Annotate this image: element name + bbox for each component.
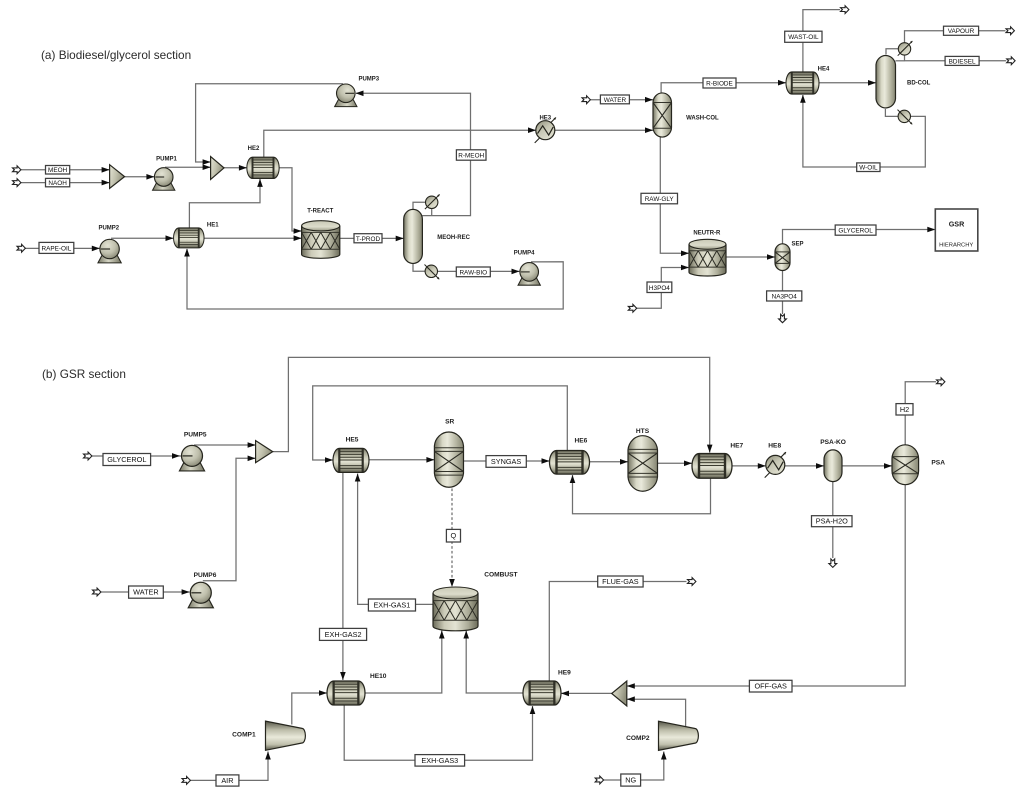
mixer M4 bbox=[612, 681, 627, 706]
svg-text:HE5: HE5 bbox=[346, 437, 359, 444]
wire arrow into NEUTR-R lower bbox=[681, 265, 689, 271]
svg-text:Q: Q bbox=[451, 531, 457, 540]
stream label EXH-GAS2 bbox=[320, 628, 367, 640]
svg-text:GSR: GSR bbox=[949, 219, 965, 228]
wire arrow into HE9 bottom bbox=[530, 706, 536, 714]
wire arrow into M1 upper bbox=[102, 167, 110, 173]
svg-text:PUMP4: PUMP4 bbox=[514, 250, 535, 256]
pump PUMP2 bbox=[98, 239, 121, 263]
wire arrow into PSA bbox=[884, 463, 892, 469]
wire EXH-GAS2 line bbox=[342, 472, 344, 680]
svg-text:COMP1: COMP1 bbox=[232, 732, 256, 739]
svg-text:W-OIL: W-OIL bbox=[859, 165, 878, 172]
wire HE6 top to HE5 left bbox=[313, 386, 568, 460]
wire arrow into BD-COL bbox=[868, 80, 876, 86]
wire PSA top H2 out bbox=[905, 382, 936, 445]
wire arrow into WASH-COL lower bbox=[645, 127, 653, 133]
compressor COMP1 bbox=[266, 721, 306, 750]
wire MEOH-REC condenser stub bbox=[413, 202, 425, 209]
stream label T-PROD bbox=[354, 234, 382, 243]
wire arrow into M3 lower bbox=[248, 456, 256, 462]
feed/product arrow WATER-b feed bbox=[93, 588, 101, 596]
svg-text:BD-COL: BD-COL bbox=[907, 80, 931, 86]
wire arrow into M4 lower bbox=[627, 696, 635, 702]
svg-text:HE10: HE10 bbox=[370, 673, 387, 680]
heat exchanger HE4 bbox=[786, 72, 819, 94]
wire R-MEOH recycle PUMP3 to M2 bbox=[196, 84, 343, 162]
wire WASH-COL bottom to NEUTR-R bbox=[660, 137, 689, 253]
wire arrow into PUMP3 bbox=[356, 91, 364, 97]
wire EXH-GAS3 line bbox=[344, 705, 532, 760]
wire PSA bottom OFF-GAS bbox=[627, 485, 905, 686]
feed/product arrow NG feed bbox=[595, 776, 603, 784]
wire arrow into PUMP2 bbox=[92, 246, 100, 252]
stream label WATER-a bbox=[600, 95, 629, 104]
wire BD-COL reboiler stub bbox=[885, 109, 898, 116]
svg-text:BDIESEL: BDIESEL bbox=[949, 58, 976, 65]
heat exchanger HE5 bbox=[333, 448, 369, 472]
wire M4 to HE9 bbox=[561, 692, 612, 694]
svg-text:WATER: WATER bbox=[604, 97, 627, 104]
svg-text:PSA-KO: PSA-KO bbox=[820, 439, 846, 446]
wire HE10 to COMBUST bbox=[365, 631, 442, 694]
stream label BDIESEL bbox=[945, 56, 979, 65]
reactor reformer SR bbox=[434, 432, 463, 487]
wire arrow into MEOH-REC bbox=[396, 236, 404, 242]
feed/product arrow WAST-OIL out bbox=[841, 6, 849, 14]
wire AIR feed line bbox=[190, 752, 268, 781]
wire arrow into PUMP6 bbox=[182, 589, 190, 595]
wire arrow into M1 lower bbox=[102, 180, 110, 186]
reboiler of BD-COL bbox=[898, 110, 913, 125]
stream label GLYCEROL-b bbox=[103, 454, 151, 466]
mixer M3 bbox=[256, 441, 273, 463]
stream label RAW-GLY bbox=[641, 193, 678, 204]
heat exchanger HE7 bbox=[692, 454, 732, 479]
svg-text:HE4: HE4 bbox=[818, 67, 830, 73]
wire MEOH-REC reboiler stub bbox=[413, 263, 425, 271]
heat exchanger HE2 bbox=[247, 157, 279, 178]
wire WASH-COL top to HE4 bbox=[661, 83, 786, 93]
svg-text:RAW-GLY: RAW-GLY bbox=[645, 196, 675, 203]
wire HE6 to HTS bbox=[590, 461, 629, 463]
svg-text:NAOH: NAOH bbox=[48, 180, 67, 187]
wire arrow into T-REACT lower bbox=[294, 235, 302, 241]
svg-text:EXH-GAS1: EXH-GAS1 bbox=[373, 601, 410, 610]
svg-text:RAPE-OIL: RAPE-OIL bbox=[41, 245, 71, 252]
wire arrow into HE5 left bbox=[325, 457, 333, 463]
wire arrow into PUMP4 bbox=[512, 269, 520, 275]
wire M3 to HE7 top bbox=[273, 357, 710, 452]
svg-text:EXH-GAS3: EXH-GAS3 bbox=[421, 756, 458, 765]
stream label W-OIL bbox=[857, 163, 880, 172]
svg-text:AIR: AIR bbox=[221, 776, 233, 785]
pump PUMP1 bbox=[153, 168, 175, 191]
svg-text:MEOH: MEOH bbox=[48, 167, 68, 174]
stream label R-MEOH bbox=[456, 150, 486, 160]
svg-text:VAPOUR: VAPOUR bbox=[948, 28, 975, 35]
svg-text:MEOH-REC: MEOH-REC bbox=[437, 235, 470, 241]
wire arrow into HE6 bottom bbox=[570, 475, 576, 483]
reactor COMBUST bbox=[433, 587, 478, 631]
wire arrow into T-REACT upper bbox=[294, 228, 302, 234]
wire W-OIL loop to HE4 bottom bbox=[803, 95, 925, 167]
wire arrow into COMP2 bottom bbox=[661, 752, 667, 760]
wire PUMP2 to HE1 bbox=[111, 237, 174, 239]
reactor NEUTR-R bbox=[689, 239, 726, 276]
svg-text:GLYCEROL: GLYCEROL bbox=[838, 228, 873, 235]
wire arrow into HE7 left bbox=[684, 461, 692, 467]
svg-text:T-PROD: T-PROD bbox=[356, 236, 381, 243]
wire MEOH feed line bbox=[21, 169, 110, 171]
wire SR to HE6 SYNGAS bbox=[464, 460, 550, 462]
wire arrow into COMBUST bottom left bbox=[439, 631, 445, 639]
stream label R-BIODE bbox=[703, 78, 736, 88]
stream label AIR bbox=[216, 775, 239, 786]
svg-text:HE1: HE1 bbox=[207, 222, 219, 228]
svg-text:SEP: SEP bbox=[791, 241, 803, 247]
svg-text:GLYCEROL: GLYCEROL bbox=[107, 455, 146, 464]
wire arrow into HE6 left bbox=[542, 458, 550, 464]
wire NG feed line bbox=[603, 752, 664, 781]
wire SR to COMBUST Q dashed bbox=[451, 489, 453, 579]
wire arrow into HE4 left bbox=[778, 80, 786, 86]
stream label GLYCEROL-a bbox=[835, 225, 876, 235]
wire arrow into SEP bbox=[767, 254, 775, 260]
svg-text:NEUTR-R: NEUTR-R bbox=[693, 231, 721, 237]
wire arrow into HE10 top bbox=[340, 672, 346, 680]
feed/product arrow VAPOUR out bbox=[1006, 27, 1014, 35]
wire arrow into HE8 bbox=[758, 463, 766, 469]
wire HE2 right to T-REACT upper bbox=[279, 168, 301, 231]
wire H3PO4 feed line bbox=[636, 268, 689, 309]
svg-text:PUMP1: PUMP1 bbox=[156, 157, 177, 163]
wire HE1 top to HE2 bottom bbox=[189, 178, 260, 228]
wire HE7 bottom to HE6 bottom bbox=[573, 475, 711, 514]
wire HE1 to T-REACT lower bbox=[204, 237, 302, 239]
wire PSA-KO to PSA bbox=[842, 465, 892, 467]
wire R-MEOH line bbox=[356, 93, 471, 215]
wire arrow into NEUTR-R upper bbox=[681, 251, 689, 257]
mixer M2 bbox=[211, 157, 224, 180]
stream label Q bbox=[446, 529, 460, 542]
heat exchanger HE1 bbox=[174, 228, 204, 248]
stream label VAPOUR bbox=[944, 26, 979, 35]
wire M2 to HE2 bbox=[224, 167, 247, 169]
mixer M1 bbox=[110, 165, 125, 189]
wire NAOH feed line bbox=[21, 182, 110, 184]
heat exchanger HE10 bbox=[327, 681, 365, 705]
wire arrow into HE2 bottom bbox=[257, 179, 263, 187]
feed/product arrow FLUE-GAS out bbox=[688, 578, 696, 586]
feed/product arrow MEOH feed bbox=[13, 166, 21, 174]
stream label RAPE-OIL bbox=[39, 242, 74, 253]
wire HE2 top to HE3 to WASH-COL bbox=[264, 130, 653, 157]
stream label H3PO4 bbox=[647, 282, 672, 293]
reactor reactor HTS bbox=[628, 436, 658, 492]
stream label MEOH bbox=[46, 166, 70, 175]
wire WATER-a feed line bbox=[590, 99, 653, 101]
vessel separator SEP bbox=[775, 244, 790, 271]
wire arrow into HE1 left bbox=[166, 235, 174, 241]
stream label SYNGAS bbox=[486, 456, 526, 468]
wire arrow into HE1 bottom bbox=[184, 249, 190, 257]
svg-text:SYNGAS: SYNGAS bbox=[491, 457, 522, 466]
wire arrow into M2 upper bbox=[203, 159, 211, 165]
stream label FLUE-GAS bbox=[598, 576, 643, 587]
svg-text:NG: NG bbox=[625, 776, 636, 785]
feed/product arrow NA3PO4 out bbox=[779, 314, 787, 322]
stream label H2 bbox=[896, 404, 913, 415]
svg-text:PUMP2: PUMP2 bbox=[98, 226, 119, 232]
svg-text:NA3PO4: NA3PO4 bbox=[772, 293, 798, 300]
svg-text:PUMP3: PUMP3 bbox=[358, 76, 379, 82]
wire arrow into M4 upper bbox=[627, 683, 635, 689]
svg-text:HE9: HE9 bbox=[558, 669, 571, 676]
wire COMP1 to HE10 bbox=[292, 693, 327, 725]
stream label OFF-GAS bbox=[749, 680, 792, 692]
feed/product arrow GLYCEROL-b feed bbox=[84, 452, 92, 460]
condenser of MEOH-REC bbox=[425, 194, 440, 209]
svg-text:HE3: HE3 bbox=[539, 116, 551, 122]
wire PUMP6 to M3 bbox=[203, 458, 256, 581]
wire arrow into HTS bbox=[620, 459, 628, 465]
svg-text:WAST-OIL: WAST-OIL bbox=[788, 34, 819, 41]
feed/product arrow AIR feed bbox=[182, 777, 190, 785]
svg-text:R-MEOH: R-MEOH bbox=[458, 153, 484, 160]
feed/product arrow H2 out bbox=[937, 378, 945, 386]
svg-text:PSA-H2O: PSA-H2O bbox=[816, 517, 848, 526]
wire arrow into HE3 bbox=[528, 127, 536, 133]
svg-text:(b) GSR section: (b) GSR section bbox=[42, 367, 126, 381]
wire HTS to HE7 bbox=[658, 462, 692, 464]
svg-text:COMBUST: COMBUST bbox=[484, 572, 517, 579]
wire arrow into HE4 bottom bbox=[800, 95, 806, 103]
wire arrow into GSR bbox=[927, 227, 935, 233]
wire arrow into COMP1 bottom bbox=[265, 752, 271, 760]
feed/product arrow H3PO4 feed bbox=[628, 304, 636, 312]
heater HE8 bbox=[765, 452, 787, 478]
wire HE7 to HE8 bbox=[732, 465, 766, 467]
reactor T-REACT bbox=[302, 221, 340, 259]
wire RAW-BIO line bbox=[438, 270, 520, 272]
svg-text:WATER: WATER bbox=[133, 588, 159, 597]
wire PUMP4 recycle to HE1 bottom bbox=[187, 249, 563, 309]
wire arrow into PUMP1 bbox=[146, 174, 154, 180]
wire arrow into PSA-KO bbox=[816, 463, 824, 469]
svg-text:HE7: HE7 bbox=[730, 443, 743, 450]
wire PSA-KO bottom PSA-H2O out bbox=[832, 482, 834, 559]
svg-text:HE2: HE2 bbox=[248, 146, 260, 152]
wire HE9 to COMBUST bbox=[466, 631, 523, 694]
stream label NG bbox=[621, 774, 641, 786]
heat exchanger HE9 bbox=[523, 681, 561, 705]
stream label EXH-GAS1 bbox=[368, 599, 415, 611]
feed/product arrow NAOH feed bbox=[13, 179, 21, 187]
svg-text:R-BIODE: R-BIODE bbox=[706, 81, 733, 88]
wire NEUTR-R to SEP bbox=[726, 256, 775, 258]
wire arrow into HE10 left bbox=[319, 690, 327, 696]
feed/product arrow BDIESEL out bbox=[1007, 57, 1015, 65]
wire arrow into HE7 top bbox=[707, 445, 713, 453]
wire M1 to PUMP1 bbox=[125, 176, 155, 178]
pump PUMP4 bbox=[518, 263, 540, 286]
vessel adsorber PSA bbox=[892, 445, 919, 485]
svg-text:COMP2: COMP2 bbox=[626, 735, 650, 742]
vessel column WASH-COL bbox=[653, 93, 672, 137]
wire HE4 top WAST-OIL out bbox=[803, 10, 840, 72]
svg-text:FLUE-GAS: FLUE-GAS bbox=[602, 577, 639, 586]
wire BDIESEL line bbox=[905, 55, 1007, 61]
svg-text:HE8: HE8 bbox=[768, 443, 781, 450]
heater HE3 bbox=[535, 117, 557, 143]
stream label WATER-b bbox=[129, 586, 164, 598]
reboiler of MEOH-REC bbox=[425, 265, 440, 280]
wire BD-COL condenser stub bbox=[886, 49, 899, 55]
wire SEP top to GSR bbox=[783, 230, 936, 244]
svg-text:PSA: PSA bbox=[931, 460, 945, 467]
svg-text:SR: SR bbox=[445, 419, 454, 426]
stream label RAW-BIO bbox=[456, 267, 490, 277]
svg-text:EXH-GAS2: EXH-GAS2 bbox=[325, 630, 362, 639]
pump PUMP6 bbox=[188, 582, 213, 608]
svg-text:H2: H2 bbox=[900, 405, 909, 414]
svg-text:PUMP5: PUMP5 bbox=[184, 431, 207, 438]
wire GLYCEROL-b feed line bbox=[92, 455, 182, 457]
stream label WAST-OIL bbox=[785, 31, 822, 42]
vessel column MEOH-REC bbox=[404, 209, 423, 263]
heat exchanger HE6 bbox=[550, 451, 590, 475]
wire RAPE-OIL feed line bbox=[25, 247, 100, 249]
feed/product arrow RAPE-OIL feed bbox=[17, 244, 25, 252]
svg-text:(a) Biodiesel/glycerol section: (a) Biodiesel/glycerol section bbox=[41, 48, 191, 62]
wire SEP bottom NA3PO4 out bbox=[782, 271, 784, 315]
svg-text:HTS: HTS bbox=[636, 428, 650, 435]
svg-text:OFF-GAS: OFF-GAS bbox=[754, 682, 787, 691]
stream label PSA-H2O bbox=[812, 516, 853, 527]
wire arrow into HE9 right bbox=[561, 691, 569, 697]
svg-text:H3PO4: H3PO4 bbox=[649, 285, 670, 292]
wire HE9 top FLUE-GAS out bbox=[549, 582, 686, 682]
wire EXH-GAS1 line bbox=[358, 474, 433, 605]
wire condenser to VAPOUR out bbox=[905, 31, 1006, 43]
wire HE5 to SR bbox=[369, 459, 434, 461]
condenser of BD-COL bbox=[898, 41, 913, 56]
wire arrow into WASH-COL upper bbox=[645, 97, 653, 103]
wire arrow into M2 lower bbox=[203, 164, 211, 170]
wire arrow into PUMP5 bbox=[172, 453, 180, 459]
feed/product arrow WATER-a feed bbox=[582, 96, 590, 104]
pump PUMP5 bbox=[179, 445, 204, 471]
wire COMP2 to M4 bbox=[627, 699, 686, 727]
wire condenser drop stub bbox=[431, 209, 433, 216]
stream label EXH-GAS3 bbox=[415, 755, 465, 767]
wire BDIESEL from column bbox=[896, 60, 905, 62]
wire arrow into SR bbox=[426, 457, 434, 463]
svg-text:RAW-BIO: RAW-BIO bbox=[459, 269, 487, 276]
wire arrow into COMBUST bottom right bbox=[463, 631, 469, 639]
wire arrow into COMBUST top Q bbox=[449, 579, 455, 587]
wire PUMP1 to M2 bbox=[165, 166, 211, 168]
svg-text:WASH-COL: WASH-COL bbox=[686, 115, 719, 121]
stream label NA3PO4 bbox=[767, 291, 802, 301]
vessel knockout drum PSA-KO bbox=[824, 450, 842, 482]
pump PUMP3 bbox=[335, 84, 357, 107]
svg-text:HE6: HE6 bbox=[574, 438, 587, 445]
wire WATER-b feed line bbox=[101, 591, 190, 593]
wire HE4 to BD-COL bbox=[819, 82, 876, 84]
hierarchy block GSR bbox=[935, 209, 978, 251]
svg-text:PUMP6: PUMP6 bbox=[194, 572, 217, 579]
wire arrow into HE2 left bbox=[239, 165, 247, 171]
wire arrow into M3 upper bbox=[248, 442, 256, 448]
vessel column BD-COL bbox=[876, 56, 896, 108]
wire HE8 to PSA-KO bbox=[785, 465, 824, 467]
feed/product arrow PSA-H2O out bbox=[829, 559, 837, 567]
wire T-REACT to MEOH-REC bbox=[340, 237, 404, 239]
compressor COMP2 bbox=[659, 721, 699, 750]
wire arrow into HE5 bottom bbox=[355, 474, 361, 482]
wire PUMP5 to M3 bbox=[194, 444, 256, 446]
stream label NAOH bbox=[46, 178, 70, 187]
svg-text:T-REACT: T-REACT bbox=[307, 208, 333, 214]
svg-text:HIERARCHY: HIERARCHY bbox=[939, 243, 973, 249]
